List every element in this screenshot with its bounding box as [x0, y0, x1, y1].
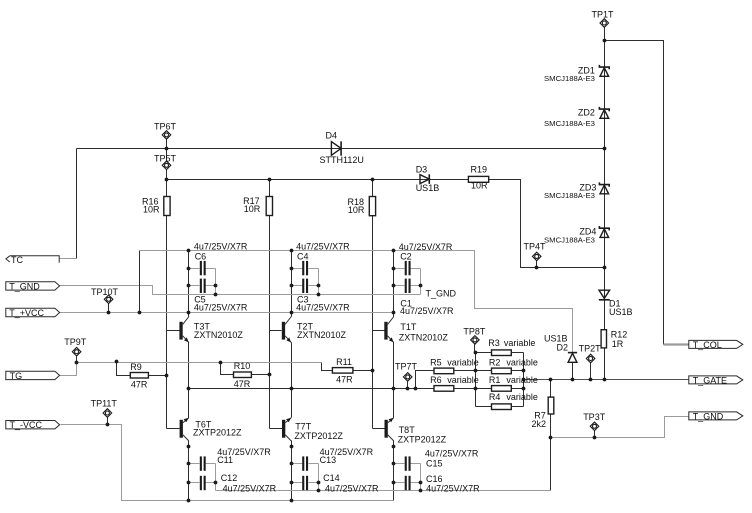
wire: R9 jog from TG rail [117, 362, 167, 376]
resistor R3 [492, 350, 512, 356]
wire: column 2 emitter vertical [291, 343, 293, 418]
svg-text:TP4T: TP4T [524, 242, 547, 252]
capacitor C1 [405, 279, 411, 293]
connector T_-VCC [6, 420, 60, 430]
wire: C14 row leads [292, 482, 319, 484]
TVS diode ZD2 [599, 107, 609, 118]
wire: T2T base lead [270, 330, 282, 332]
node rail2 at R17 [268, 178, 272, 182]
wire: R network right vertical [523, 353, 525, 407]
svg-text:T_-VCC: T_-VCC [10, 420, 43, 430]
svg-text:T_+VCC: T_+VCC [9, 308, 44, 318]
svg-text:variable: variable [506, 392, 538, 402]
svg-text:ZD2: ZD2 [578, 108, 595, 118]
svg-text:C2: C2 [400, 252, 412, 262]
node rail1 at TP6T [165, 147, 169, 151]
wire: TP6T stub [166, 140, 168, 149]
wire: cap-top rail over to D2 anode [140, 251, 573, 353]
diode D1 [599, 290, 610, 300]
svg-text:T_COL: T_COL [693, 340, 722, 350]
transistor T8T PNP [385, 418, 394, 441]
wire: TP4T stub [536, 261, 538, 268]
wire: TP2T stub [590, 363, 592, 380]
resistor R16 [164, 197, 170, 216]
svg-text:TP6T: TP6T [154, 122, 177, 132]
wire: column 2 lower vertical [291, 441, 293, 501]
svg-text:C14: C14 [323, 473, 340, 483]
wire: TC stub [60, 258, 77, 260]
wire: R10 jog from TG rail [221, 363, 270, 375]
wire: column 3 lower vertical [393, 441, 395, 501]
svg-text:SMCJ188A-E3: SMCJ188A-E3 [544, 236, 595, 245]
node output rail col2 [290, 387, 294, 391]
resistor R9 [130, 373, 148, 379]
test point TP9T [72, 347, 81, 356]
node T6T collector lower [187, 445, 191, 449]
wire: vertical from drive rail down to TC connector [76, 149, 78, 259]
node C1 left [392, 284, 396, 288]
svg-text:4u7/25V/X7R: 4u7/25V/X7R [399, 242, 453, 252]
svg-text:variable: variable [447, 375, 479, 385]
svg-text:R6: R6 [430, 375, 442, 385]
node C11 left [187, 462, 191, 466]
capacitor C13 [302, 456, 308, 470]
wire: cap bank 2 top right line [318, 269, 320, 295]
svg-text:4u7/25V/X7R: 4u7/25V/X7R [223, 484, 277, 494]
connector TC [6, 255, 59, 265]
node gnd rail col2 [317, 293, 321, 297]
svg-text:D4: D4 [326, 131, 338, 141]
svg-text:TG: TG [10, 371, 23, 381]
node TP3T junction [593, 436, 597, 440]
capacitor C6 [200, 261, 206, 275]
node output rail TP7T [406, 387, 410, 391]
wire: +VCC net from connector to NPN collectors [60, 312, 394, 314]
svg-text:variable: variable [504, 338, 536, 348]
node TP4T rail [535, 266, 539, 270]
wire: R11 jog from TG rail [322, 363, 373, 371]
node TG rail R10 [219, 361, 223, 365]
test point TP4T [532, 252, 541, 261]
wire: C5 row leads [189, 285, 216, 287]
node T_GATE rail D2 [571, 378, 575, 382]
node T_GATE rail R7 [549, 378, 553, 382]
svg-text:C12: C12 [221, 473, 238, 483]
node R9 to base column [165, 374, 169, 378]
resistor R2 [492, 368, 512, 374]
node R network right mid [522, 369, 526, 373]
wire: top node to right vertical down to T_COL [605, 41, 664, 345]
transistor T6T PNP [180, 418, 189, 441]
node T1T collector [392, 311, 396, 315]
svg-text:STTH112U: STTH112U [320, 155, 364, 165]
svg-text:TP11T: TP11T [91, 398, 118, 408]
node output rail R5 branch [414, 387, 418, 391]
wire: column 1 center vertical (cap rail to T3T collector) [188, 251, 190, 317]
connector T_COL [689, 340, 743, 350]
svg-text:4u7/25V/X7R: 4u7/25V/X7R [400, 306, 454, 316]
svg-text:C11: C11 [217, 455, 233, 465]
node C16 left [392, 481, 396, 485]
svg-text:4u7/25V/X7R: 4u7/25V/X7R [425, 449, 479, 459]
wire: T3T base lead [167, 330, 180, 332]
capacitor C14 [302, 476, 308, 490]
svg-text:4u7/25V/X7R: 4u7/25V/X7R [194, 303, 248, 313]
svg-text:4u7/25V/X7R: 4u7/25V/X7R [296, 242, 350, 252]
connector T_GND left [6, 281, 60, 291]
test point TP10T [104, 295, 113, 304]
wire: TP5T stub [166, 149, 168, 180]
wire: cap bank 3 top right line [420, 269, 422, 295]
wire: base column 1 with R16 in line, down to T3T and T6T bases [166, 180, 168, 429]
svg-text:D3: D3 [416, 164, 428, 174]
wire: ZD diode chain vertical with D1 and R12 down to T_GATE rail [604, 28, 606, 380]
node R network left rail [474, 387, 478, 391]
svg-text:R10: R10 [234, 361, 251, 371]
svg-text:R19: R19 [471, 164, 488, 174]
svg-text:ZXTP2012Z: ZXTP2012Z [193, 428, 242, 438]
svg-text:TP1T: TP1T [592, 10, 615, 20]
node C14 right [317, 481, 321, 485]
transistor T2T NPN [282, 317, 292, 343]
svg-text:ZXTN2010Z: ZXTN2010Z [297, 330, 347, 340]
node T_GATE rail R12 [603, 378, 607, 382]
svg-text:47R: 47R [336, 374, 353, 384]
diode D4 [331, 141, 341, 155]
svg-text:SMCJ188A-E3: SMCJ188A-E3 [544, 191, 595, 200]
svg-text:ZXTP2012Z: ZXTP2012Z [294, 431, 343, 441]
node gnd line col2 right [317, 489, 321, 493]
svg-text:47R: 47R [131, 379, 148, 389]
wire: column 1 lower vertical (T6T collector to bottom rail) [188, 441, 190, 501]
connector TG [6, 371, 60, 381]
wire: D2 bottom lead to T_GATE rail [572, 363, 574, 380]
capacitor C4 [302, 261, 308, 275]
node C12 right [214, 481, 218, 485]
resistor R4 [492, 404, 512, 410]
wire: T_GND right net from connector to R7 bottom node [551, 417, 689, 438]
TVS diode ZD1 [599, 65, 609, 76]
wire: TG rail [77, 362, 322, 364]
test point TP2T [586, 354, 595, 363]
svg-text:SMCJ188A-E3: SMCJ188A-E3 [544, 74, 595, 83]
svg-text:C16: C16 [426, 474, 443, 484]
test point TP7T [403, 373, 412, 382]
node bottom rail col1 [187, 499, 191, 503]
node +VCC riser [138, 311, 142, 315]
node C5 right [214, 284, 218, 288]
node R network right at output rail [522, 387, 526, 391]
wire: TP9T stub [76, 357, 78, 362]
node rail1 at ZD chain [603, 147, 607, 151]
resistor R7 [548, 397, 554, 414]
TVS diode ZD3 [599, 182, 609, 193]
svg-text:TP8T: TP8T [463, 326, 486, 336]
node C1 right [419, 284, 423, 288]
resistor R1 [492, 386, 512, 392]
wire: R7 vertical from T_GATE rail down to bottom ground line [550, 380, 552, 491]
node TG rail TP9T [75, 361, 79, 365]
wire: T_GATE rail [524, 379, 689, 381]
wire: second drive rail through D3 and R19 then down and right to TP4T node [167, 180, 605, 268]
wire: R2 row [476, 370, 524, 372]
svg-text:4u7/25V/X7R: 4u7/25V/X7R [194, 242, 248, 252]
svg-text:ZXTP2012Z: ZXTP2012Z [398, 434, 447, 444]
wire: R5 branch vertical and row [416, 371, 476, 389]
svg-text:US1B: US1B [416, 183, 440, 193]
node C3 left [290, 284, 294, 288]
wire: C4 row leads [292, 268, 319, 270]
wire: cap bank 3 bottom right line [420, 464, 422, 491]
wire: T_GND left net from connector, step down to ground rail under cap banks [60, 286, 421, 295]
wire: TP10T stub [108, 304, 110, 313]
svg-text:4u7/25V/X7R: 4u7/25V/X7R [426, 484, 480, 494]
node cap-top rail col1 [187, 249, 191, 253]
node T_GATE rail TP2T [589, 378, 593, 382]
capacitor C11 [200, 456, 206, 470]
test point TP5T [162, 161, 171, 170]
wire: bottom ground line linking cap bank right sides to R7 [216, 490, 551, 492]
wire: C1 row leads [394, 285, 421, 287]
node cap-top rail col2 [290, 249, 294, 253]
node C5 left [187, 284, 191, 288]
wire: C12 row leads [189, 482, 216, 484]
wire: T_COL stub [664, 343, 689, 345]
svg-text:US1B: US1B [609, 307, 633, 317]
node TP10T junction [107, 311, 111, 315]
wire: base column 3 with R18 in line [372, 180, 374, 429]
wire: column 3 center vertical [393, 251, 395, 317]
wire: TP3T stub [594, 431, 596, 438]
node TG rail R9 [115, 360, 119, 364]
svg-text:C4: C4 [297, 252, 309, 262]
node cap-top rail col3 [392, 249, 396, 253]
svg-text:C13: C13 [320, 455, 337, 465]
diode D2 [568, 353, 577, 363]
svg-text:TP5T: TP5T [154, 153, 177, 163]
wire: R network left vertical [475, 353, 477, 407]
svg-text:variable: variable [447, 358, 479, 368]
wire: +VCC riser to cap-top rail [139, 251, 141, 313]
svg-text:2k2: 2k2 [531, 419, 546, 429]
resistor R5 [434, 368, 454, 374]
connector T_GATE [689, 375, 743, 385]
capacitor C5 [200, 279, 206, 293]
wire: C15 row leads [394, 463, 421, 465]
node T8T collector lower [392, 445, 396, 449]
node TP11T junction [106, 423, 110, 427]
wire: T8T base lead [373, 428, 385, 430]
svg-text:R3: R3 [488, 338, 500, 348]
node output rail col1 [187, 387, 191, 391]
svg-text:10R: 10R [471, 181, 488, 191]
wire: output rail through R6 and R1 [189, 388, 524, 390]
node C4 left [290, 267, 294, 271]
svg-text:10R: 10R [244, 204, 261, 214]
wire: C2 row leads [394, 268, 421, 270]
svg-text:1R: 1R [612, 339, 624, 349]
svg-text:4u7/25V/X7R: 4u7/25V/X7R [325, 484, 379, 494]
node T3T collector [187, 311, 191, 315]
test point TP8T [471, 336, 480, 345]
node output rail col3 [392, 387, 396, 391]
svg-text:R1: R1 [489, 375, 501, 385]
node C16 right [419, 481, 423, 485]
resistor R10 [234, 372, 252, 378]
wire: T_-VCC net from connector down to bottom rail [61, 425, 394, 501]
transistor T3T NPN [179, 317, 189, 343]
svg-text:T_GATE: T_GATE [693, 375, 727, 385]
svg-text:TP2T: TP2T [579, 343, 602, 353]
svg-text:TP7T: TP7T [395, 362, 418, 372]
svg-text:TP3T: TP3T [583, 412, 606, 422]
wire: cap bank 1 top right line [215, 269, 217, 295]
node T2T collector [290, 311, 294, 315]
wire: T1T base lead [373, 330, 385, 332]
svg-text:T_GND: T_GND [426, 288, 457, 298]
node C3 right [317, 284, 321, 288]
wire: column 3 emitter vertical [393, 343, 395, 418]
wire: top drive rail from TC corner to ZD node (through D4) [77, 148, 605, 150]
wire: C11 row leads [189, 463, 216, 465]
wire: T6T base lead [167, 428, 180, 430]
node R7 bottom T_GND [549, 436, 553, 440]
wire: cap bank 2 bottom right line [318, 464, 320, 491]
svg-text:T_GND: T_GND [693, 411, 724, 421]
wire: C16 row leads [394, 482, 421, 484]
connector T_GND right [689, 411, 743, 421]
wire: C6 row leads [189, 268, 216, 270]
svg-text:10R: 10R [143, 204, 160, 214]
diode D3 [420, 174, 429, 184]
svg-text:ZXTN2010Z: ZXTN2010Z [399, 333, 449, 343]
svg-text:4u7/25V/X7R: 4u7/25V/X7R [296, 303, 350, 313]
node R network left mid [474, 369, 478, 373]
node gnd line col3 right [419, 489, 423, 493]
capacitor C2 [405, 261, 411, 275]
node rail2 start TP5T [165, 178, 169, 182]
capacitor C15 [405, 456, 411, 470]
node C14 left [290, 481, 294, 485]
svg-text:variable: variable [506, 375, 538, 385]
svg-text:ZXTN2010Z: ZXTN2010Z [194, 330, 244, 340]
node gnd rail col1 [214, 293, 218, 297]
svg-text:R5: R5 [430, 358, 442, 368]
capacitor C3 [302, 279, 308, 293]
node C13 left [290, 462, 294, 466]
node C2 left [392, 267, 396, 271]
svg-text:T_GND: T_GND [9, 281, 40, 291]
wire: TP7T stub [407, 382, 409, 389]
resistor R12 [601, 330, 606, 348]
svg-text:variable: variable [506, 358, 538, 368]
test point TP3T [590, 422, 599, 431]
wire: column 2 center vertical [291, 251, 293, 317]
test point TP1T [600, 19, 609, 28]
test point TP11T [103, 409, 112, 418]
capacitor C12 [200, 476, 206, 490]
node C12 left [187, 481, 191, 485]
svg-text:R9: R9 [130, 362, 142, 372]
wire: TG net stub from connector [60, 363, 77, 376]
node C15 left [392, 462, 396, 466]
svg-text:T1T: T1T [400, 322, 417, 332]
resistor R11 [332, 368, 353, 374]
node R11 to base column [371, 369, 375, 373]
wire: T7T base lead [270, 428, 283, 430]
wire: C3 row leads [292, 285, 319, 287]
svg-text:R4: R4 [489, 392, 501, 402]
transistor T1T NPN [384, 317, 394, 343]
transistor T7T PNP [282, 418, 291, 441]
svg-text:47R: 47R [234, 379, 251, 389]
wire: TP8T stub [474, 345, 476, 353]
resistor R18 [369, 197, 375, 216]
test point TP6T [162, 131, 171, 140]
svg-text:TP10T: TP10T [91, 287, 119, 297]
TVS diode ZD4 [599, 226, 609, 237]
svg-text:C15: C15 [426, 458, 443, 468]
wire: column 1 emitter junction vertical (T3T emitter to T6T emitter) [188, 343, 190, 418]
node R10 to base column [268, 373, 272, 377]
svg-text:R2: R2 [489, 358, 501, 368]
node ZD chain mid lower [603, 266, 607, 270]
wire: base column 2 with R17 in line [269, 180, 271, 429]
wire: TP11T stub [107, 418, 109, 425]
wire: R3 row [476, 352, 524, 354]
resistor R6 [434, 386, 454, 392]
node R network right at T_GATE rail [522, 378, 526, 382]
wire: C13 row leads [292, 463, 319, 465]
svg-text:10R: 10R [348, 205, 365, 215]
capacitor C16 [405, 476, 411, 490]
node bottom rail col2 [290, 499, 294, 503]
svg-text:TP9T: TP9T [64, 337, 87, 347]
svg-text:R11: R11 [336, 357, 352, 367]
svg-text:D2: D2 [556, 343, 568, 353]
node T7T collector lower [290, 445, 294, 449]
svg-text:TC: TC [11, 255, 23, 265]
svg-text:C6: C6 [195, 252, 207, 262]
resistor R17 [266, 197, 272, 216]
wire: cap bank 1 bottom right line [215, 464, 217, 491]
node top of ZD chain [603, 39, 607, 43]
node TP8T to R3 [474, 351, 478, 355]
wire: R4 row [476, 406, 524, 408]
resistor R19 [468, 176, 488, 182]
svg-text:SMCJ188A-E3: SMCJ188A-E3 [544, 119, 595, 128]
connector T_+VCC [6, 308, 60, 318]
node rail2 at R18 [371, 178, 375, 182]
node C6 left [187, 267, 191, 271]
